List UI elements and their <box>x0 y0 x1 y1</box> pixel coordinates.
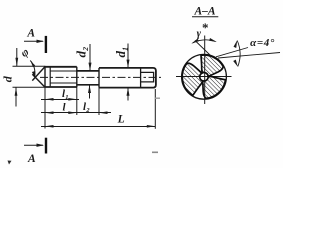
section crosshair centerlines <box>176 76 232 78</box>
svg-text:l₂: l₂ <box>83 101 90 113</box>
section outer circle (thread OD) <box>182 54 227 99</box>
thread end shoulder vertical <box>76 67 78 87</box>
dimension d extension lines <box>13 65 46 67</box>
relief angle alpha=4 deg annotation: tangent, leader, arc, arrowheads, label <box>216 48 248 57</box>
svg-text:L: L <box>117 113 125 125</box>
svg-text:d₂: d₂ <box>73 46 88 57</box>
dimension d arrowheads <box>15 58 18 67</box>
extension lines for l1, l, l2, L dimensions <box>45 87 155 129</box>
svg-text:A: A <box>27 153 36 165</box>
dimension l1: line, arrowheads, label <box>41 99 79 101</box>
shank start shoulder vertical <box>98 68 100 88</box>
dimension d dimension line <box>16 48 18 66</box>
square drive flat lines <box>141 72 154 82</box>
svg-text:*: * <box>202 20 209 35</box>
thread minor-diameter lines and first-crest vertical <box>50 70 77 72</box>
chamfer cone tip lines (lead taper) <box>32 67 45 81</box>
square drive shoulder vertical <box>140 68 142 88</box>
dimensions l and l2: shared line, arrowheads, labels <box>41 112 111 114</box>
svg-text:A–A: A–A <box>193 6 215 18</box>
svg-text:d: d <box>1 75 15 82</box>
neck (reduced diameter) edges <box>77 70 99 72</box>
shank outline with rounded end face <box>99 68 156 88</box>
rake angle gamma annotation: rake line, arc, arrowheads, labels <box>195 41 211 56</box>
svg-text:A: A <box>26 28 35 40</box>
svg-text:γ: γ <box>197 28 202 39</box>
threaded section outline <box>44 66 46 88</box>
svg-text:l₁: l₁ <box>62 88 69 100</box>
three hatched cutting lands (lobed cross-section) <box>182 55 225 98</box>
scan specks <box>8 161 12 165</box>
dimension L (overall length): line, arrowheads, label <box>41 126 155 128</box>
svg-text:α=4°: α=4° <box>250 37 275 49</box>
axis centerline of tap <box>40 76 161 78</box>
svg-text:d₁: d₁ <box>113 46 128 57</box>
